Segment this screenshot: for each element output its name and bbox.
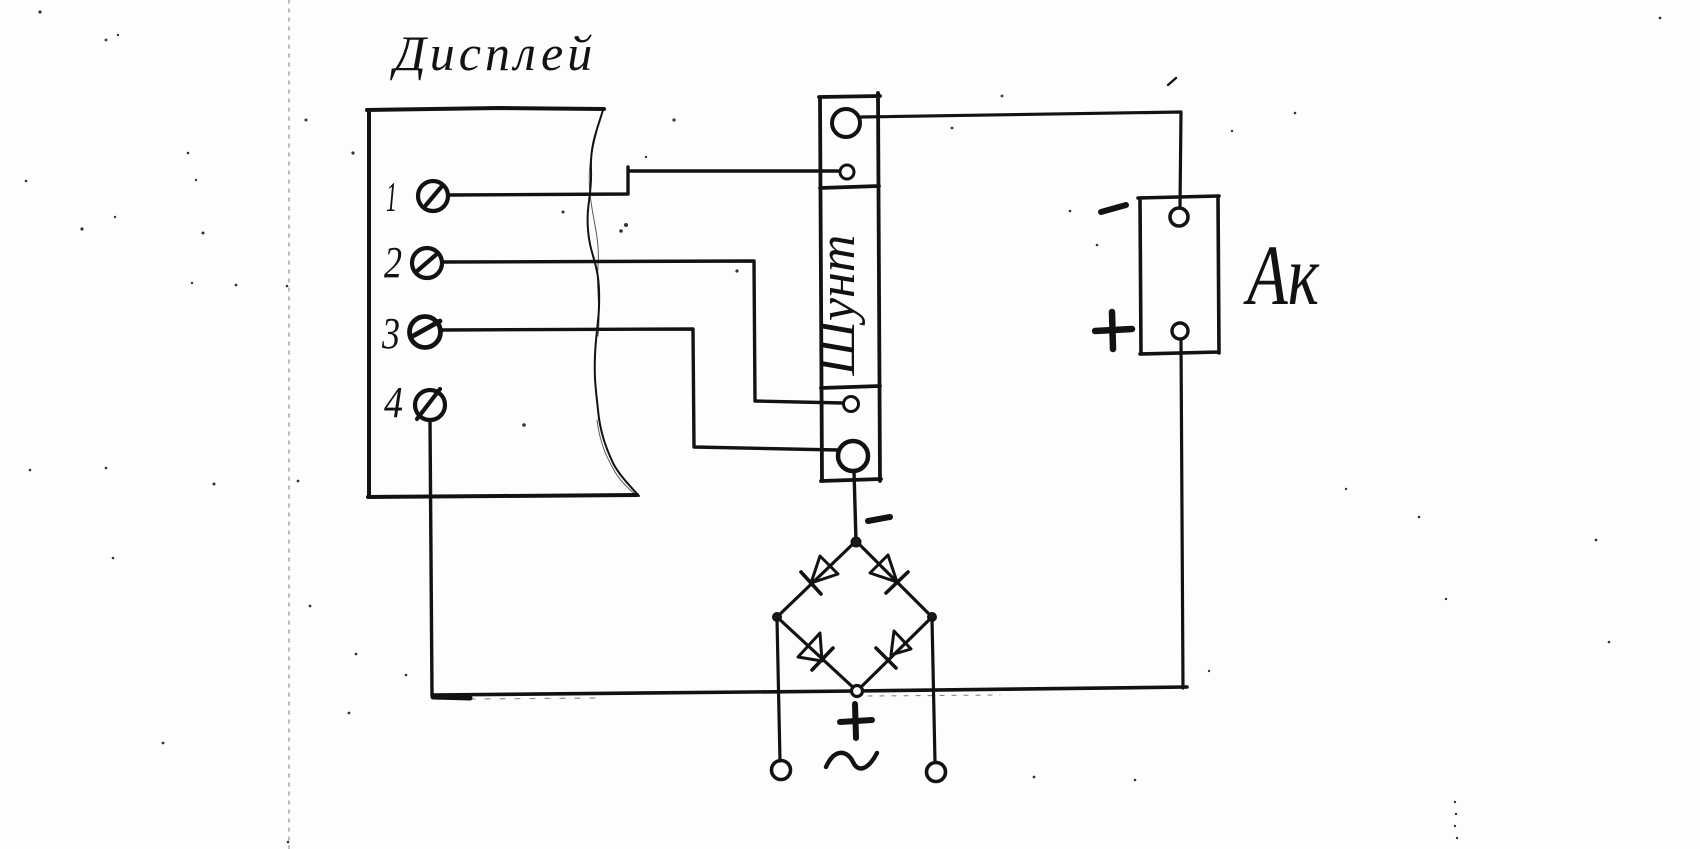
bridge plus label xyxy=(840,704,872,738)
wire AC right leg xyxy=(932,619,935,762)
battery minus label xyxy=(1101,205,1126,212)
shunt top sense pin xyxy=(840,165,854,179)
wire terminal3 to shunt bottom bolt xyxy=(441,329,838,450)
svg-text:Шунт: Шунт xyxy=(809,235,866,377)
node AC left xyxy=(773,613,781,621)
terminal 2 xyxy=(412,248,442,278)
node plus (bridge bottom) xyxy=(852,686,863,697)
terminal 3 xyxy=(410,317,441,348)
bridge arm bottom-left xyxy=(777,617,857,691)
wire terminal2 to shunt lower sense pin xyxy=(443,261,843,403)
AC tilde label xyxy=(826,753,877,769)
bridge arm bottom-right xyxy=(857,617,932,691)
wire shunt bottom bolt to bridge minus node xyxy=(854,471,856,541)
battery plus label xyxy=(1095,312,1132,349)
shunt box xyxy=(819,93,881,481)
wire battery plus down to bottom rail xyxy=(1181,340,1183,688)
terminal 1 xyxy=(418,181,448,211)
bridge minus label xyxy=(868,517,890,521)
svg-text:2: 2 xyxy=(384,238,402,287)
svg-text:3: 3 xyxy=(381,309,400,358)
battery Ак box xyxy=(1138,196,1219,354)
AC left terminal xyxy=(772,761,791,780)
wire terminal4 to bottom rail xyxy=(430,420,432,694)
bottom rail wire xyxy=(432,687,1187,695)
shunt top bolt xyxy=(832,109,860,137)
torn paper edge xyxy=(588,110,639,496)
battery plus pin xyxy=(1172,323,1188,339)
terminal 4 xyxy=(415,389,445,420)
svg-text:Дисплей: Дисплей xyxy=(390,25,596,81)
svg-text:4: 4 xyxy=(384,378,403,427)
shunt bottom bolt xyxy=(838,441,868,471)
svg-text:1: 1 xyxy=(386,175,397,221)
bridge arm top-right xyxy=(856,541,932,617)
stray pen tick (decorative) xyxy=(1168,78,1176,85)
diode top-left xyxy=(801,556,838,594)
node minus (bridge top) xyxy=(852,538,861,547)
svg-text:Ак: Ак xyxy=(1243,227,1319,323)
diode top-right xyxy=(870,555,908,593)
diode bottom-left xyxy=(798,633,833,670)
wire shunt top bolt to battery minus xyxy=(861,112,1181,208)
shunt bottom sense pin xyxy=(844,397,859,412)
diode bottom-right xyxy=(876,631,911,668)
bridge arm top-left xyxy=(777,541,856,617)
battery minus pin xyxy=(1170,208,1188,226)
wire terminal1 to shunt sense pin xyxy=(449,167,838,195)
wire AC left leg xyxy=(777,619,780,761)
display unit box xyxy=(367,108,637,497)
AC right terminal xyxy=(927,763,946,782)
scanner fold line (decorative) xyxy=(288,0,290,849)
node AC right xyxy=(928,613,936,621)
